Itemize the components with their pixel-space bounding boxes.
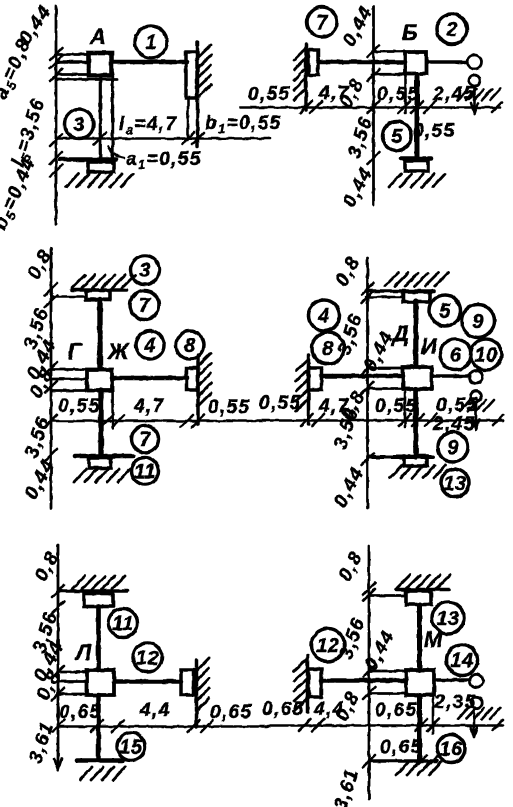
- frame D-I: ceiling hatching: [385, 273, 448, 286]
- frame D-I: upper column (double line): [413, 301, 418, 366]
- frame M: ceiling line: [396, 588, 449, 592]
- frame G-Zh: right wall plate: [187, 368, 199, 390]
- svg-text:2,45: 2,45: [432, 84, 476, 105]
- svg-text:13: 13: [436, 608, 459, 630]
- svg-text:4,7: 4,7: [133, 396, 165, 417]
- frame A: left console top edge: [56, 53, 88, 56]
- frame G-Zh: node circle 7: [130, 291, 159, 320]
- frame M: joint block: [406, 670, 434, 695]
- frame M: down arrow: [471, 710, 478, 737]
- frame G-Zh: ceiling line: [72, 288, 127, 292]
- svg-text:10: 10: [474, 345, 497, 367]
- svg-text:0,65: 0,65: [210, 702, 253, 723]
- frame D-I: top plate line: [366, 296, 403, 299]
- frame M: node circle 13: [432, 602, 464, 634]
- svg-text:3: 3: [73, 114, 85, 136]
- frame B: node circle 7: [307, 7, 337, 37]
- frame D-I: left wall line: [307, 355, 311, 424]
- svg-text:0,44: 0,44: [361, 627, 400, 674]
- frame M: lower column: [417, 695, 422, 760]
- frame D-I: ground hatching: [390, 465, 446, 478]
- frame G-Zh: node circle 11: [132, 458, 159, 485]
- frame G-Zh: footing bar: [75, 454, 133, 459]
- svg-text:0,44: 0,44: [339, 164, 378, 211]
- svg-text:2: 2: [445, 19, 458, 41]
- frame L: bottom arrowhead: [55, 759, 62, 770]
- frame G-Zh: dimension ticks: [101, 415, 204, 427]
- frame D-I: pendulum circle lower: [471, 391, 482, 402]
- svg-text:16: 16: [439, 739, 463, 761]
- svg-text:0,8: 0,8: [332, 253, 365, 290]
- frame M: link beam to pendulum: [434, 678, 470, 682]
- svg-text:8: 8: [322, 338, 334, 360]
- svg-text:4: 4: [143, 335, 156, 357]
- frame A: left vertical dimension line: [55, 6, 58, 224]
- frame L: node circle 15: [117, 733, 145, 761]
- frame G-Zh: ticks on dimension line: [45, 283, 57, 461]
- frame D-I: left wall hatching: [296, 359, 309, 411]
- svg-text:4: 4: [317, 306, 330, 328]
- svg-text:9: 9: [472, 311, 484, 333]
- frame B: down arrow: [471, 88, 478, 114]
- frame M: lower dimension ticks: [415, 755, 439, 767]
- frame L: node circle 11: [109, 609, 138, 638]
- frame G-Zh: top plate line: [51, 295, 86, 298]
- frame M: dimension line: [268, 724, 503, 727]
- frame A: ground hatching: [66, 174, 133, 187]
- svg-text:Л: Л: [74, 640, 92, 665]
- frame M: lower dimension line: [369, 759, 437, 763]
- svg-text:7: 7: [139, 429, 151, 451]
- frame L: ceiling hatching: [72, 576, 125, 589]
- frame A: column (double line): [100, 76, 112, 165]
- frame D-I: dimension ticks: [301, 414, 503, 426]
- frame D-I: left wall plate: [309, 368, 322, 390]
- svg-text:lа=4,7: lа=4,7: [119, 114, 177, 137]
- frame M: upper column: [417, 605, 422, 671]
- svg-text:3: 3: [139, 260, 151, 282]
- svg-text:0,44: 0,44: [21, 456, 60, 503]
- frame M: pendulum circle lower: [471, 697, 482, 708]
- frame B: column (double line): [415, 74, 420, 158]
- frame G-Zh: lower column (double line): [98, 391, 103, 456]
- frame L: right wall plate: [181, 670, 194, 695]
- frame B: central vertical dimension line: [372, 6, 375, 205]
- svg-text:0,55: 0,55: [208, 397, 251, 418]
- frame L: lower column: [96, 695, 101, 760]
- svg-text:11: 11: [112, 613, 134, 635]
- svg-text:Б: Б: [402, 20, 418, 45]
- svg-text:Г: Г: [68, 339, 83, 364]
- frame L: node circle 12: [133, 643, 162, 672]
- svg-text:3,56: 3,56: [21, 414, 54, 461]
- frame M: dimension ticks: [299, 719, 503, 731]
- frame M: central vertical dimension line: [368, 546, 371, 799]
- frame A: joint block: [89, 53, 112, 76]
- frame B: right console edges: [373, 52, 406, 75]
- frame D-I: node circle 10: [471, 339, 502, 370]
- frame D-I: console edges: [368, 368, 404, 389]
- frame M: left wall line: [306, 656, 310, 712]
- frame L: upper column: [96, 607, 101, 671]
- svg-text:0,8: 0,8: [335, 548, 368, 585]
- frame B: node circle 5: [383, 122, 412, 151]
- frame D-I: dimension line: [256, 419, 503, 422]
- frame A: bottom dimension line: [56, 137, 270, 140]
- frame L: dimension line: [58, 725, 268, 728]
- frame L: ticks on dimension line: [52, 585, 64, 732]
- svg-text:7: 7: [316, 12, 328, 34]
- svg-text:9: 9: [447, 437, 459, 459]
- svg-text:12: 12: [316, 635, 339, 657]
- frame L: beam: [114, 679, 181, 684]
- frame G-Zh: node circle 7 (lower): [132, 426, 159, 453]
- frame B: node circle 2: [437, 14, 467, 44]
- frame D-I: link beam to pendulum: [432, 374, 470, 378]
- svg-text:0,55: 0,55: [436, 395, 479, 416]
- frame M: left wall hatching: [294, 659, 307, 711]
- frame A: top beam: [113, 60, 187, 65]
- frame M: ticks on dimension line: [363, 583, 375, 767]
- frame L: right wall hatching: [197, 658, 210, 711]
- frame M: node circle 16: [437, 735, 465, 763]
- frame A: left console mid line: [56, 60, 88, 64]
- frame M: extension line: [432, 696, 435, 734]
- frame D-I: footing block: [404, 456, 427, 466]
- frame A: node circle 3: [65, 110, 94, 139]
- frame G-Zh: ground hatching: [74, 469, 130, 482]
- frame B: footing block: [405, 161, 428, 171]
- frame D-I: joint block: [403, 367, 432, 389]
- svg-text:0,55: 0,55: [259, 393, 302, 414]
- svg-text:Д: Д: [391, 321, 409, 346]
- svg-text:а1=0,55: а1=0,55: [126, 149, 202, 172]
- svg-text:0,65: 0,65: [59, 702, 102, 723]
- frame A: right wall line: [196, 42, 200, 146]
- svg-text:Ж: Ж: [107, 339, 130, 364]
- frame M: node circle 12: [312, 629, 345, 662]
- frame M: ground hatching: [396, 762, 441, 775]
- frame B: pendulum circle upper: [468, 55, 482, 69]
- frame B: dimension ticks: [300, 101, 502, 113]
- frame A: right wall hatching: [198, 45, 212, 98]
- frame D-I: node circle 5: [430, 295, 461, 326]
- svg-text:0,44: 0,44: [330, 464, 369, 511]
- frame A: ticks on left dimension line: [50, 48, 62, 177]
- svg-text:0,65: 0,65: [262, 699, 305, 720]
- svg-text:0,55: 0,55: [248, 84, 291, 105]
- frame G-Zh: node circle 8: [176, 331, 204, 359]
- frame B: pendulum circle lower: [469, 75, 480, 86]
- svg-text:0,65: 0,65: [380, 737, 423, 758]
- svg-text:2,35: 2,35: [433, 692, 477, 713]
- frame G-Zh: left vertical dimension line: [50, 248, 53, 508]
- frame D-I: down arrow: [473, 403, 480, 430]
- frame A: left console bottom edge: [56, 73, 88, 76]
- frame D-I: node circle 8: [312, 332, 344, 364]
- frame M: pendulum circle upper: [470, 674, 483, 687]
- frame G-Zh: ceiling hatching: [72, 275, 135, 288]
- frame G-Zh: joint block: [87, 370, 112, 391]
- svg-text:А: А: [89, 24, 106, 49]
- frame L: dimension ticks: [91, 720, 213, 732]
- svg-text:5: 5: [439, 301, 451, 323]
- frame D-I: node circle 9: [462, 305, 495, 338]
- svg-text:8: 8: [184, 335, 196, 357]
- frame L: left vertical dimension line: [57, 545, 60, 768]
- frame M: top plate line: [369, 594, 406, 597]
- frame D-I: node circle 4: [309, 300, 340, 331]
- svg-text:И: И: [421, 334, 438, 359]
- frame G-Zh: node circle 4: [136, 331, 164, 359]
- svg-text:4,4: 4,4: [139, 700, 171, 721]
- svg-text:а5=0,8: а5=0,8: [0, 35, 37, 103]
- frame G-Zh: node circle 3: [131, 256, 160, 285]
- frame D-I: ceiling line: [366, 289, 434, 293]
- frame D-I: node circle 6: [440, 339, 471, 370]
- frame G-Zh: footing block: [89, 458, 111, 468]
- frame B: left wall plate: [309, 50, 319, 75]
- svg-text:15: 15: [119, 737, 143, 759]
- frame A: footing block: [88, 162, 114, 172]
- frame M: node circle 14: [447, 645, 478, 676]
- frame B: link beam to pendulum: [429, 60, 468, 64]
- svg-text:b5=0,44: b5=0,44: [0, 154, 42, 233]
- frame A: dimension ticks: [94, 133, 204, 145]
- frame D-I: central vertical dimension line: [366, 258, 369, 508]
- frame G-Zh: right wall hatching: [198, 353, 211, 406]
- frame B: ticks on vertical dimension line: [368, 45, 380, 164]
- frame M: top block: [406, 591, 431, 605]
- frame L: console lines: [58, 672, 87, 694]
- svg-text:5: 5: [391, 126, 403, 148]
- frame B: pendulum support hatching: [458, 89, 500, 100]
- frame B: left wall hatching: [294, 48, 306, 100]
- svg-text:7: 7: [139, 295, 151, 317]
- frame L: ceiling line: [59, 589, 127, 593]
- frame D-I: ticks on dimension line: [362, 283, 374, 465]
- frame D-I: footing bar: [369, 455, 433, 459]
- frame L: joint block: [87, 670, 114, 695]
- frame B: ground hatching: [389, 174, 445, 187]
- frame B: top beam: [318, 60, 405, 65]
- frame M: left wall plate: [309, 669, 322, 697]
- svg-text:11: 11: [134, 461, 156, 483]
- frame B: dimension line: [240, 106, 500, 109]
- frame L: ground hatching: [80, 767, 125, 780]
- svg-text:b1=0,55: b1=0,55: [205, 113, 282, 136]
- frame M: beam: [322, 678, 407, 683]
- svg-text:3,61: 3,61: [330, 766, 363, 807]
- frame A: footing bar: [60, 157, 116, 162]
- svg-text:0,55: 0,55: [413, 121, 456, 142]
- frame L: top block: [84, 594, 113, 607]
- frame L: footing bar: [77, 758, 122, 763]
- frame G-Zh: beam: [112, 376, 187, 381]
- frame A: right wall plate: [186, 52, 197, 98]
- frame M: ceiling hatching: [397, 575, 450, 588]
- frame D-I: top block: [403, 292, 430, 302]
- svg-text:0,55: 0,55: [58, 396, 101, 417]
- svg-text:0,44: 0,44: [339, 3, 378, 50]
- frame A: line under block: [56, 78, 117, 81]
- frame D-I: beam: [322, 374, 404, 379]
- frame M: pendulum support hatching: [458, 708, 500, 719]
- svg-text:12: 12: [136, 648, 159, 670]
- frame D-I: lower column (double line): [413, 389, 418, 457]
- frame D-I: pendulum support hatching: [460, 400, 494, 411]
- frame D-I: node circle 13: [441, 469, 469, 497]
- frame B: footing bar: [401, 156, 431, 161]
- svg-text:0,65: 0,65: [375, 700, 418, 721]
- svg-text:1: 1: [145, 32, 157, 54]
- frame M: console edges: [369, 671, 406, 694]
- svg-text:13: 13: [443, 473, 466, 495]
- frame A: wall lower extension line: [187, 98, 190, 140]
- frame B: left wall line: [304, 44, 308, 110]
- frame G-Zh: right wall line: [196, 355, 200, 424]
- frame G-Zh: upper column (double line): [97, 300, 102, 368]
- svg-text:0,55: 0,55: [377, 84, 420, 105]
- frame B: joint block: [405, 52, 427, 74]
- frame G-Zh: dimension line: [51, 420, 256, 423]
- svg-text:6: 6: [450, 345, 462, 367]
- frame L: right wall line: [195, 660, 199, 727]
- frame G-Zh: top block: [86, 291, 110, 300]
- frame D-I: pendulum circle upper: [470, 371, 483, 384]
- frame A: node circle 1: [135, 26, 167, 58]
- frame A: leader to a1: [108, 146, 124, 158]
- svg-text:14: 14: [450, 650, 473, 672]
- frame D-I: node circle 9 (lower): [438, 432, 468, 462]
- frame G-Zh: console lines: [51, 370, 87, 391]
